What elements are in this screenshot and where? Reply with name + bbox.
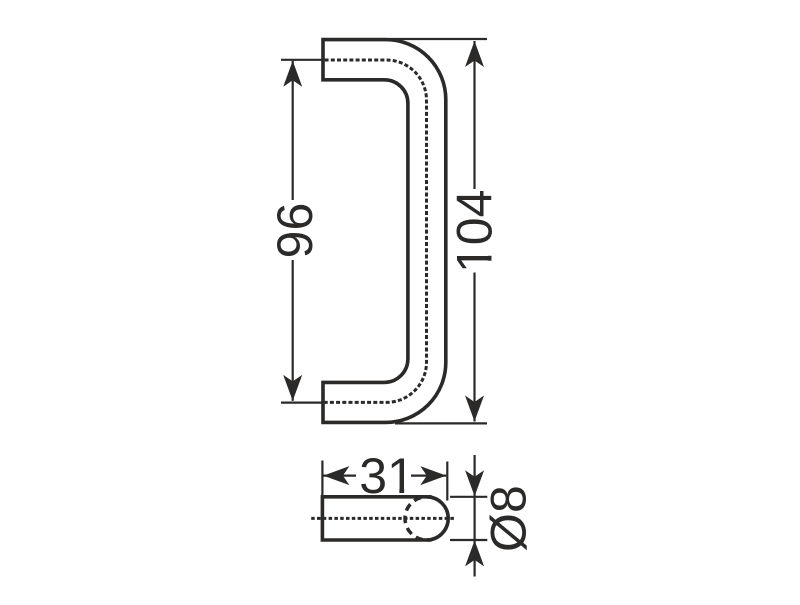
svg-text:Ø8: Ø8: [481, 485, 537, 552]
label diameter 8: [481, 485, 537, 552]
dimension line 96: [292, 61, 294, 401]
extension line 31 right: [446, 462, 448, 501]
svg-text:104: 104: [447, 190, 503, 273]
extension line 31 left: [321, 461, 323, 496]
arrow 31 right: [420, 466, 446, 485]
centerline (top view, dashed): [311, 517, 455, 520]
svg-text:31: 31: [359, 448, 415, 504]
svg-text:96: 96: [267, 203, 323, 259]
arrow 104 up: [465, 41, 484, 67]
handle profile outline (side view): [323, 40, 446, 423]
hidden bar circle, dashed left half (top view): [405, 497, 427, 540]
bar end, solid right semicircle (top view): [427, 497, 449, 540]
dimension line 104: [473, 41, 475, 422]
dimension line diameter: [474, 455, 476, 577]
top view body (rectangle, open right end): [322, 497, 431, 540]
arrow 31 left: [323, 466, 349, 485]
label 104: [447, 190, 503, 273]
arrow 96 down: [283, 375, 302, 401]
extension line 96 top: [281, 59, 325, 61]
extension line diameter bottom: [450, 539, 487, 541]
arrow 96 up: [283, 61, 302, 87]
extension line diameter top: [450, 496, 487, 498]
extension line 96 bottom: [281, 402, 325, 404]
arrow diameter down (above): [465, 470, 484, 496]
label 96: [267, 203, 323, 259]
centerline of bar (side view, dashed): [325, 60, 427, 402]
label 31: [359, 448, 415, 504]
arrow 104 down: [465, 396, 484, 422]
extension line 104 bottom: [395, 422, 487, 424]
extension line 104 top: [390, 38, 487, 40]
dimension line 31: [324, 475, 447, 477]
arrow diameter up (below): [465, 540, 484, 566]
